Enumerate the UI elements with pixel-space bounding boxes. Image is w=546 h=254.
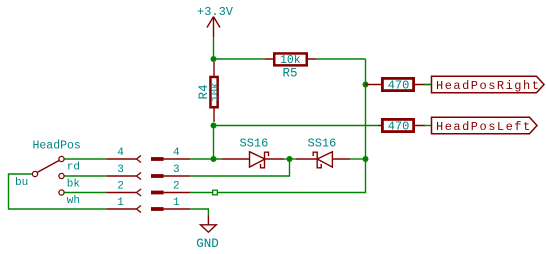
svg-text:4: 4 [117, 147, 124, 159]
power +3.3V [197, 5, 234, 37]
wire R5 to vertical net [317, 58, 366, 60]
wire J2 pin1 to GND [190, 209, 208, 216]
node B junction (R4 bottom) [211, 123, 217, 129]
ground [196, 216, 219, 252]
svg-text:HeadPosRight: HeadPosRight [436, 79, 540, 93]
svg-text:10k: 10k [280, 54, 301, 67]
node A junction [211, 56, 217, 62]
diode D1 SS16 [222, 152, 284, 168]
connector J2 pin 2 [151, 191, 190, 195]
svg-text:bk: bk [67, 178, 81, 190]
svg-text:HeadPosLeft: HeadPosLeft [436, 120, 532, 134]
wire end marker on pin2 row [213, 190, 218, 195]
resistor R7 470 [379, 119, 426, 131]
switch SW1 HeadPos [32, 139, 80, 195]
global label HeadPosLeft [432, 117, 538, 134]
svg-text:3: 3 [117, 164, 124, 176]
svg-text:wh: wh [67, 195, 80, 207]
svg-text:1: 1 [173, 197, 180, 209]
wire D1 to node E [284, 158, 296, 160]
node F junction [363, 156, 369, 162]
wire J2 pin4 to D1 [190, 158, 222, 160]
wire node E down to pin3 row [190, 159, 289, 176]
wire D2 to node F [350, 158, 366, 160]
wire node F down to pin2 row [190, 159, 365, 193]
svg-text:R4: R4 [197, 84, 211, 99]
wire R7 to label [424, 125, 432, 127]
wire wh to J1 pin2 [64, 192, 106, 194]
connector J2 pin 3 [151, 174, 190, 178]
wire R6 to label [424, 84, 432, 86]
svg-text:4: 4 [173, 147, 180, 159]
svg-text:10k: 10k [209, 83, 221, 102]
wire vertical HeadPosRight net [365, 59, 367, 159]
connector J1 pin 2 [106, 189, 141, 196]
svg-text:bu: bu [15, 177, 28, 189]
svg-text:+3.3V: +3.3V [197, 5, 234, 19]
connector J2 pin 1 [151, 207, 190, 211]
connector J1 pin 1 [106, 206, 141, 213]
node D junction (pin4 row) [211, 156, 217, 162]
svg-text:R5: R5 [283, 66, 298, 80]
svg-text:SS16: SS16 [240, 136, 269, 150]
svg-text:2: 2 [173, 181, 180, 193]
svg-text:HeadPos: HeadPos [33, 139, 81, 152]
wire node B down to pin4 row [213, 126, 215, 160]
connector J2 pin 4 [151, 157, 190, 161]
resistor R6 470 [366, 78, 433, 90]
connector J1 pin 3 [106, 173, 141, 180]
svg-text:3: 3 [173, 164, 180, 176]
svg-text:GND: GND [196, 237, 219, 251]
wire power to node A [213, 37, 215, 59]
node C junction [363, 82, 369, 88]
wire node B to R7 row [214, 125, 379, 127]
global label HeadPosRight [432, 76, 545, 93]
resistor R5 [265, 53, 317, 65]
wire rd to J1 pin4 [64, 158, 106, 160]
svg-text:1: 1 [117, 197, 124, 209]
wire bk to J1 pin3 [64, 175, 106, 177]
svg-text:2: 2 [117, 181, 124, 193]
svg-text:470: 470 [388, 119, 410, 133]
svg-text:rd: rd [67, 162, 80, 174]
connector J1 pin 4 [106, 156, 141, 163]
diode D2 SS16 [296, 152, 350, 168]
resistor R4 [210, 62, 217, 122]
node E junction (between diodes) [287, 156, 293, 162]
svg-text:470: 470 [388, 78, 410, 92]
wire node A to R5 [214, 58, 265, 60]
wire common loop [9, 174, 107, 209]
svg-text:SS16: SS16 [308, 136, 337, 150]
